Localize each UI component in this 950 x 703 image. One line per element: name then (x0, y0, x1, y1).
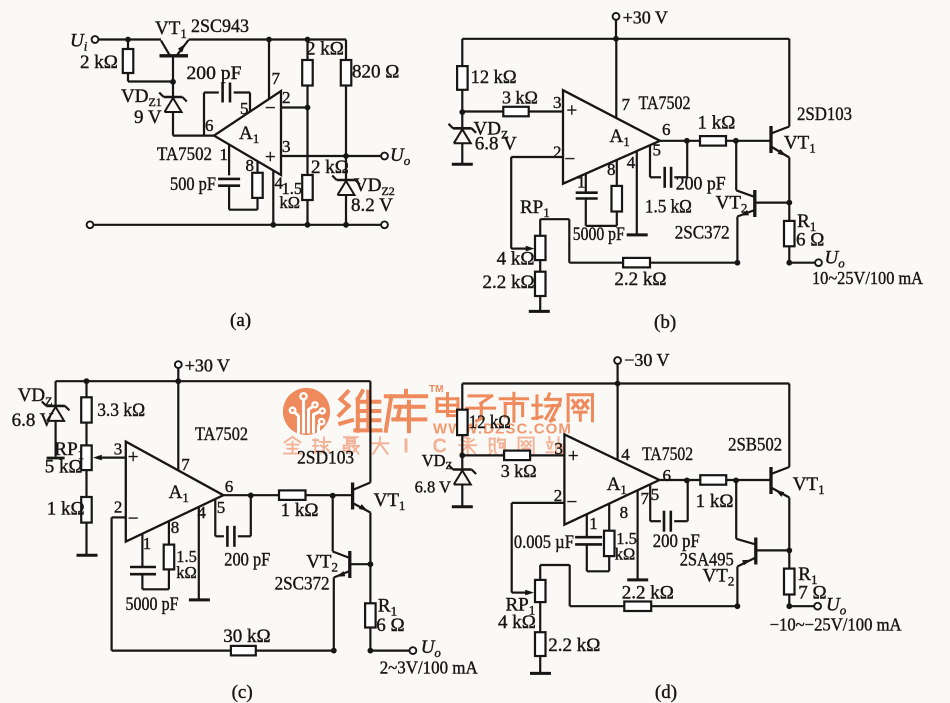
svg-text:6.8 V: 6.8 V (12, 410, 54, 431)
svg-text:2SC943: 2SC943 (191, 16, 249, 37)
svg-text:2SC372: 2SC372 (275, 574, 330, 595)
svg-text:3 kΩ: 3 kΩ (502, 88, 538, 108)
svg-text:4 kΩ: 4 kΩ (497, 249, 535, 270)
svg-text:I: I (403, 436, 409, 458)
svg-text:−: − (565, 149, 576, 170)
svg-text:TA7502: TA7502 (157, 144, 212, 165)
svg-text:2 kΩ: 2 kΩ (80, 52, 118, 73)
svg-text:6.8 V: 6.8 V (415, 478, 451, 497)
svg-text:4: 4 (621, 445, 630, 464)
svg-text:−30 V: −30 V (624, 350, 669, 370)
svg-text:1.5 kΩ: 1.5 kΩ (645, 197, 692, 218)
svg-text:2.2 kΩ: 2.2 kΩ (614, 269, 666, 290)
svg-text:10~25V/100 mA: 10~25V/100 mA (812, 268, 923, 288)
svg-text:5: 5 (217, 498, 226, 517)
svg-text:TA7502: TA7502 (639, 93, 691, 114)
svg-text:3: 3 (114, 440, 123, 459)
svg-text:2.2 kΩ: 2.2 kΩ (622, 583, 674, 604)
svg-text:2SD103: 2SD103 (797, 104, 852, 125)
svg-text:5000 pF: 5000 pF (126, 594, 179, 615)
svg-text:5: 5 (653, 141, 662, 160)
svg-text:3.3 kΩ: 3.3 kΩ (97, 400, 145, 421)
svg-text:5000 pF: 5000 pF (573, 224, 625, 245)
svg-text:2~3V/100 mA: 2~3V/100 mA (380, 658, 478, 678)
svg-text:200 pF: 200 pF (676, 174, 726, 195)
svg-text:(b): (b) (654, 312, 676, 333)
svg-text:820 Ω: 820 Ω (352, 62, 399, 83)
svg-text:8: 8 (620, 503, 629, 522)
svg-text:−: − (128, 509, 139, 530)
svg-text:1: 1 (143, 534, 152, 553)
svg-text:6 Ω: 6 Ω (376, 615, 404, 636)
svg-text:(c): (c) (232, 682, 253, 703)
svg-text:4: 4 (197, 503, 206, 522)
svg-text:6: 6 (663, 466, 672, 485)
svg-text:6 Ω: 6 Ω (796, 230, 824, 251)
svg-text:+: + (128, 447, 139, 468)
svg-text:(d): (d) (655, 682, 677, 703)
svg-text:6.8 V: 6.8 V (475, 134, 517, 155)
svg-text:6: 6 (662, 120, 671, 139)
svg-text:2: 2 (282, 88, 291, 107)
svg-text:2: 2 (114, 498, 123, 517)
svg-text:1 kΩ: 1 kΩ (281, 500, 319, 521)
svg-text:5: 5 (240, 99, 249, 118)
svg-text:1 kΩ: 1 kΩ (47, 499, 85, 520)
svg-text:2SC372: 2SC372 (675, 223, 730, 244)
svg-text:kΩ: kΩ (176, 563, 197, 582)
svg-text:200 pF: 200 pF (187, 63, 242, 84)
svg-text:1: 1 (577, 173, 586, 192)
svg-text:7: 7 (181, 455, 190, 474)
svg-text:+: + (567, 101, 578, 122)
svg-text:200 pF: 200 pF (224, 550, 270, 571)
svg-text:2.2 kΩ: 2.2 kΩ (548, 635, 600, 656)
svg-text:+30 V: +30 V (623, 7, 668, 27)
svg-text:30 kΩ: 30 kΩ (223, 626, 270, 647)
svg-text:7: 7 (622, 95, 631, 114)
svg-text:8.2 V: 8.2 V (351, 195, 393, 216)
svg-text:4: 4 (627, 153, 636, 172)
svg-text:TM: TM (429, 384, 443, 395)
svg-text:kΩ: kΩ (280, 193, 301, 212)
svg-text:4 kΩ: 4 kΩ (498, 612, 536, 633)
svg-text:1: 1 (220, 145, 229, 164)
svg-text:kΩ: kΩ (615, 545, 636, 564)
svg-text:3 kΩ: 3 kΩ (501, 461, 537, 481)
svg-text:1: 1 (589, 514, 598, 533)
svg-text:TA7502: TA7502 (195, 424, 248, 445)
svg-text:−: − (265, 98, 276, 119)
svg-text:−: − (567, 492, 578, 513)
svg-text:7: 7 (272, 69, 281, 88)
svg-text:5: 5 (651, 485, 660, 504)
svg-text:3: 3 (554, 439, 563, 458)
svg-text:7: 7 (641, 489, 650, 508)
svg-text:3: 3 (553, 93, 562, 112)
svg-text:2.2 kΩ: 2.2 kΩ (483, 272, 535, 293)
svg-text:12 kΩ: 12 kΩ (469, 412, 511, 433)
svg-text:TA7502: TA7502 (642, 444, 693, 465)
svg-text:12 kΩ: 12 kΩ (471, 67, 517, 88)
svg-text:6: 6 (205, 116, 214, 135)
svg-text:0.005 µF: 0.005 µF (514, 532, 574, 553)
svg-text:5 kΩ: 5 kΩ (45, 457, 83, 478)
svg-text:2: 2 (553, 143, 562, 162)
svg-text:1 kΩ: 1 kΩ (696, 491, 734, 512)
svg-text:8: 8 (171, 518, 180, 537)
svg-text:7 Ω: 7 Ω (798, 583, 826, 604)
svg-text:2SB502: 2SB502 (728, 435, 782, 456)
svg-text:2 kΩ: 2 kΩ (306, 39, 344, 60)
svg-text:(a): (a) (230, 310, 251, 331)
svg-text:8: 8 (607, 160, 616, 179)
svg-text:9 V: 9 V (134, 107, 162, 128)
svg-text:6: 6 (225, 477, 234, 496)
svg-text:8: 8 (246, 156, 255, 175)
svg-text:2 kΩ: 2 kΩ (311, 157, 349, 178)
svg-text:500 pF: 500 pF (170, 174, 216, 195)
svg-text:+: + (265, 147, 276, 168)
svg-text:2SD103: 2SD103 (297, 448, 354, 469)
svg-text:−10~−25V/100 mA: −10~−25V/100 mA (770, 615, 902, 635)
svg-text:+: + (568, 446, 579, 467)
svg-text:1 kΩ: 1 kΩ (698, 113, 736, 134)
svg-text:+30 V: +30 V (185, 356, 230, 376)
svg-text:3: 3 (282, 137, 291, 156)
